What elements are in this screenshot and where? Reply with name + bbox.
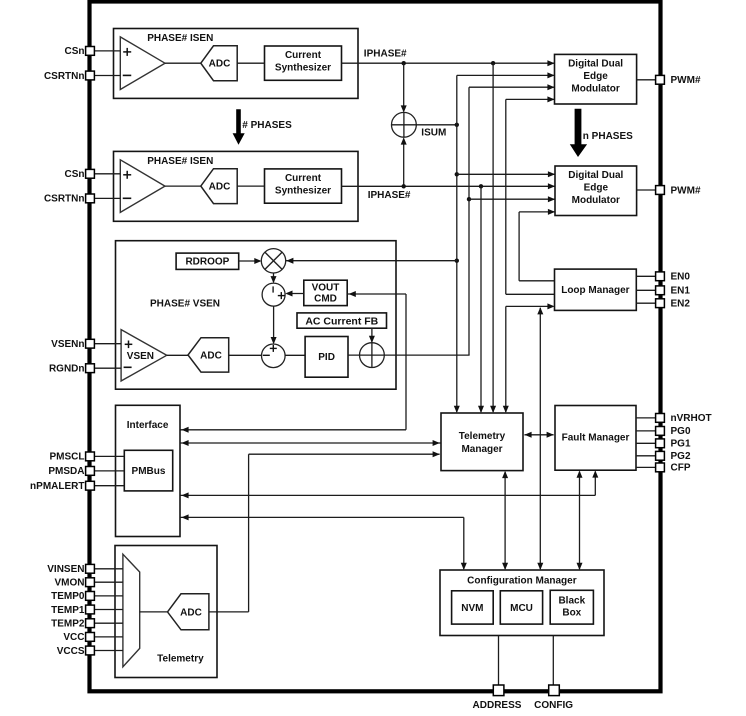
ADC 2 (current sense): [201, 169, 237, 204]
block PID: [305, 337, 348, 378]
wire RGNDn to amp: [95, 367, 122, 369]
wire Loop Manager to EN0: [636, 275, 655, 277]
wire Configuration Manager to ADDRESS pin: [498, 636, 500, 687]
multiplier droop: [261, 249, 285, 273]
svg-text:Interface: Interface: [127, 420, 169, 431]
summer 3 (AC feedforward): [360, 343, 385, 368]
n PHASES block-repeat arrow: [570, 109, 633, 157]
wire PMSDA to PMBus: [95, 470, 125, 472]
svg-text:CFP: CFP: [671, 463, 691, 474]
wire Fault Manager to nVRHOT: [636, 417, 656, 419]
svg-text:CSn: CSn: [65, 46, 85, 57]
pin ADDRESS: [473, 685, 522, 711]
wire mux to telemetry ADC: [140, 611, 168, 613]
label IPHASE# 1: [364, 48, 407, 59]
wire ISUM bus vertical: [454, 75, 460, 413]
op-amp current sense amplifier 2: [120, 160, 165, 213]
svg-text:Manager: Manager: [461, 444, 502, 455]
wire VMON to mux: [95, 581, 123, 583]
svg-text:VOUT: VOUT: [312, 282, 340, 293]
wire Loop Manager output B vertical: [518, 212, 520, 281]
block Black Box: [550, 590, 593, 624]
label PHASE# VSEN: [150, 298, 220, 309]
wire IPHASE#1 down to Telemetry Manager: [490, 63, 496, 413]
node ISUM bus junction modulator 2: [455, 172, 459, 176]
summing node ISUM: [392, 112, 417, 137]
pin PWM#: [656, 75, 701, 86]
wire VOUT CMD to summer 1: [285, 291, 304, 297]
wire VCC to mux: [95, 636, 123, 638]
wire VOUT CMD net vertical: [405, 294, 407, 430]
wire Telemetry Manager to Fault Manager: [524, 432, 553, 438]
block NVM: [452, 591, 494, 624]
block PHASE# ISEN 1 outline: [114, 29, 359, 99]
pin TEMP2: [51, 619, 94, 630]
pin VSENn: [51, 339, 94, 350]
pin PG1: [656, 439, 691, 450]
svg-text:VSEN: VSEN: [127, 351, 154, 362]
label PHASE# ISEN 2: [147, 156, 213, 167]
wire RDROOP to multiplier: [239, 258, 262, 264]
svg-text:IPHASE#: IPHASE#: [368, 190, 411, 201]
pin PMSCL: [50, 452, 95, 463]
block AC Current FB: [297, 313, 387, 328]
svg-text:VSENn: VSENn: [51, 339, 84, 350]
svg-text:CSRTNn: CSRTNn: [44, 71, 85, 82]
wire Fault Manager to CFP: [636, 466, 656, 468]
wire CSRTNn 2 to amp: [95, 197, 121, 199]
block RDROOP: [176, 253, 239, 269]
svg-text:Current: Current: [285, 173, 322, 184]
# PHASES block-repeat arrow: [233, 109, 292, 145]
node compensation bus junction modulator 2: [467, 197, 471, 201]
pin VCC: [63, 632, 94, 643]
wire VSENn to amp: [95, 343, 122, 345]
svg-text:ADC: ADC: [209, 182, 231, 193]
block Configuration Manager: [440, 570, 604, 636]
wire fault branch up to Loop Manager input: [537, 307, 543, 570]
block Telemetry outline: [115, 546, 217, 678]
svg-text:ISUM: ISUM: [421, 127, 446, 138]
svg-text:Loop Manager: Loop Manager: [561, 285, 629, 296]
pin PWM#: [656, 185, 701, 196]
wire telemetry ADC output: [209, 451, 440, 612]
wire VSEN amp to ADC: [167, 354, 188, 356]
wire Fault Manager to PG1: [636, 442, 656, 444]
wire IPHASE#2 down to Telemetry Manager: [478, 186, 484, 413]
svg-text:PMBus: PMBus: [132, 466, 166, 477]
wire multiplier to summer 1: [271, 273, 277, 283]
block PHASE# VSEN outline: [116, 241, 397, 390]
wire IPHASE#2 (Current Synthesizer 2 to Digital Dual Edge Modulator 2): [342, 183, 556, 189]
svg-text:PWM#: PWM#: [671, 185, 701, 196]
svg-text:EN1: EN1: [671, 286, 691, 297]
svg-text:AC Current FB: AC Current FB: [305, 315, 378, 327]
svg-text:PID: PID: [318, 352, 335, 363]
svg-text:RDROOP: RDROOP: [185, 257, 229, 268]
pin VMON: [55, 578, 95, 589]
label PHASE# ISEN 1: [147, 33, 213, 44]
svg-text:ADC: ADC: [180, 607, 202, 618]
svg-text:Telemetry: Telemetry: [459, 431, 506, 442]
wire IPHASE#1 down to ISUM summer: [401, 63, 407, 112]
svg-text:VCC: VCC: [63, 632, 84, 643]
svg-text:Configuration Manager: Configuration Manager: [467, 576, 577, 587]
svg-text:EN2: EN2: [671, 299, 691, 310]
pin CSRTNn: [44, 71, 94, 82]
wire compensation bus vertical: [468, 87, 470, 355]
wire VOUT CMD net horizontal upper: [347, 291, 406, 297]
wire PID output through summer 3 to compensation bus: [348, 354, 470, 356]
wire Interface to Fault Manager bottom: [180, 470, 598, 498]
pin VCCS: [57, 646, 95, 657]
svg-text:MCU: MCU: [510, 603, 533, 614]
svg-text:EN0: EN0: [671, 272, 691, 283]
svg-text:VCCS: VCCS: [57, 646, 85, 657]
wire Loop Manager input horizontal: [506, 303, 555, 309]
svg-text:PMSDA: PMSDA: [48, 466, 84, 477]
wire Configuration Manager to CONFIG pin: [552, 636, 554, 687]
ADC 1 (current sense): [201, 46, 237, 81]
pin CONFIG: [534, 685, 573, 711]
svg-text:Digital Dual: Digital Dual: [568, 59, 623, 70]
wire Fault Manager to PG0: [636, 430, 656, 432]
pin CFP: [656, 463, 691, 474]
svg-text:RGNDn: RGNDn: [49, 364, 85, 375]
label IPHASE# 2: [368, 190, 411, 201]
wire Loop Manager output A vertical: [505, 99, 507, 294]
wire Interface to Telemetry Manager: [180, 440, 441, 446]
svg-text:CONFIG: CONFIG: [534, 700, 573, 711]
wire VCCS to mux: [95, 650, 123, 652]
wire ISUM bus to modulator 2 input 1: [457, 171, 555, 177]
op-amp current sense amplifier 1: [120, 37, 165, 90]
svg-text:PHASE# VSEN: PHASE# VSEN: [150, 298, 220, 309]
pin EN2: [656, 299, 691, 310]
svg-text:PWM#: PWM#: [671, 75, 701, 86]
svg-text:ADC: ADC: [209, 59, 231, 70]
pin nPMALERT: [30, 481, 94, 492]
block Interface: [116, 405, 181, 536]
wire ISUM bus to modulator 1 input 2: [457, 72, 555, 78]
svg-text:Current: Current: [285, 50, 322, 61]
wire Telemetry Manager to Configuration Manager: [502, 471, 508, 570]
pin TEMP0: [51, 591, 94, 602]
op-amp VSEN amplifier: [121, 330, 167, 381]
node IPHASE#1 junction to ISUM: [402, 61, 406, 65]
wire modulator 2 to PWM#: [637, 189, 656, 191]
block PHASE# ISEN 2 outline: [114, 151, 359, 221]
wire ADC to summer 2: [229, 354, 262, 356]
wire Fault Manager to PG2: [636, 455, 656, 457]
wire IPHASE#1 (Current Synthesizer 1 to Digital Dual Edge Modulator 1): [342, 60, 555, 66]
pin CSn: [65, 169, 95, 180]
svg-text:VINSEN: VINSEN: [47, 564, 84, 575]
svg-text:n PHASES: n PHASES: [583, 131, 633, 142]
block Digital Dual Edge Modulator 1: [555, 54, 637, 104]
pin CSRTNn: [44, 194, 94, 205]
wire Loop Manager to EN2: [636, 302, 655, 304]
wire compensation bus to modulator 2 input 3: [469, 196, 555, 202]
pin TEMP1: [51, 605, 94, 616]
svg-text:Digital Dual: Digital Dual: [568, 170, 623, 181]
svg-text:# PHASES: # PHASES: [242, 120, 292, 131]
wire Interface to Configuration Manager: [180, 514, 467, 570]
label ISUM: [421, 127, 446, 138]
pin CSn: [65, 46, 95, 57]
block Loop Manager: [555, 269, 637, 310]
pin EN0: [656, 272, 691, 283]
wire Loop Manager output A horizontal: [506, 293, 555, 295]
svg-text:CSn: CSn: [65, 169, 85, 180]
pin VINSEN: [47, 564, 94, 575]
wire Loop Manager output B to modulator 2 input 4: [519, 209, 555, 215]
wire TEMP0 to mux: [95, 595, 123, 597]
svg-text:TEMP0: TEMP0: [51, 591, 85, 602]
wire ADC1 to Current Synthesizer 1: [237, 62, 264, 64]
svg-text:Telemetry: Telemetry: [157, 654, 204, 665]
pin PMSDA: [48, 466, 94, 477]
svg-text:Modulator: Modulator: [572, 195, 620, 206]
wire Loop Manager to EN1: [636, 289, 655, 291]
svg-text:Synthesizer: Synthesizer: [275, 63, 331, 74]
svg-text:NVM: NVM: [461, 603, 483, 614]
wire VOUT CMD net horizontal lower to Interface: [180, 427, 406, 433]
block PMBus: [124, 450, 172, 491]
summer 1 (droop minus): [262, 283, 285, 306]
wire summer 1 to summer 2: [271, 306, 277, 344]
block Telemetry Manager: [441, 413, 523, 471]
pin PG0: [656, 426, 691, 437]
svg-text:Fault Manager: Fault Manager: [562, 433, 630, 444]
wire AC Current FB to summer 3: [369, 328, 375, 368]
svg-text:ADDRESS: ADDRESS: [473, 700, 522, 711]
node ISUM bus junction droop multiplier: [455, 259, 459, 263]
svg-text:TEMP1: TEMP1: [51, 605, 85, 616]
pin PG2: [656, 451, 691, 462]
block Fault Manager: [555, 406, 636, 471]
svg-text:PG0: PG0: [671, 426, 691, 437]
block Digital Dual Edge Modulator 2: [555, 166, 637, 216]
wire IPHASE#2 up into ISUM summer: [401, 137, 407, 186]
svg-text:Black: Black: [558, 596, 585, 607]
wire modulator 1 to PWM#: [637, 79, 656, 81]
svg-text:CMD: CMD: [314, 293, 337, 304]
svg-text:PHASE# ISEN: PHASE# ISEN: [147, 33, 213, 44]
svg-text:Edge: Edge: [583, 71, 608, 82]
block MCU: [500, 591, 542, 624]
svg-text:CSRTNn: CSRTNn: [44, 194, 85, 205]
svg-text:Edge: Edge: [584, 183, 609, 194]
chip outline: [90, 2, 661, 692]
wire TEMP2 to mux: [95, 622, 123, 624]
svg-text:Modulator: Modulator: [571, 83, 619, 94]
block Current Synthesizer 1: [265, 46, 342, 80]
svg-text:VMON: VMON: [55, 578, 85, 589]
ADC telemetry: [168, 594, 209, 630]
wire CSn 2 to amp: [95, 173, 121, 175]
pin nVRHOT: [656, 413, 712, 424]
wire VINSEN to mux: [95, 568, 123, 570]
node IPHASE#2 junction to ISUM: [402, 184, 406, 188]
wire amp1 to ADC1: [165, 62, 201, 64]
svg-text:nPMALERT: nPMALERT: [30, 481, 84, 492]
node IPHASE#1 junction to telemetry bus: [491, 61, 495, 65]
wire CSRTNn 1 to amp: [95, 75, 121, 77]
svg-text:PG2: PG2: [671, 451, 691, 462]
wire Loop Manager output A to modulator 1 input 4: [506, 96, 555, 102]
svg-text:Synthesizer: Synthesizer: [275, 185, 331, 196]
wire Fault Manager to Configuration Manager: [577, 471, 583, 571]
node IPHASE#2 junction to telemetry bus: [479, 184, 483, 188]
wire Loop Manager output B horizontal: [519, 280, 554, 282]
svg-text:PHASE# ISEN: PHASE# ISEN: [147, 156, 213, 167]
svg-text:IPHASE#: IPHASE#: [364, 48, 407, 59]
block VOUT CMD: [304, 280, 347, 305]
svg-text:nVRHOT: nVRHOT: [671, 413, 712, 424]
pin EN1: [656, 286, 691, 297]
wire ISUM output to bus: [416, 124, 457, 126]
telemetry input mux: [123, 554, 140, 667]
block Current Synthesizer 2: [265, 169, 342, 203]
svg-text:ADC: ADC: [200, 351, 222, 362]
wire PMSCL to PMBus: [95, 455, 125, 457]
wire CSn 1 to amp: [95, 50, 121, 52]
wire ISUM bus to droop multiplier: [285, 258, 457, 264]
svg-text:PG1: PG1: [671, 439, 691, 450]
node ISUM output junction: [455, 123, 459, 127]
pin RGNDn: [49, 364, 94, 375]
wire TEMP1 to mux: [95, 609, 123, 611]
wire Loop Manager input net down to Telemetry Manager: [503, 306, 509, 413]
wire nPMALERT to PMBus: [95, 485, 125, 487]
svg-text:Box: Box: [562, 608, 581, 619]
wire summer 2 to PID: [285, 354, 305, 356]
svg-text:TEMP2: TEMP2: [51, 619, 85, 630]
svg-text:PMSCL: PMSCL: [50, 452, 85, 463]
ADC VSEN: [188, 338, 229, 372]
wire ADC2 to Current Synthesizer 2: [237, 185, 264, 187]
wire amp2 to ADC2: [165, 185, 201, 187]
summer 2 (reference minus sense): [262, 344, 286, 368]
wire compensation bus to modulator 1 input 3: [469, 84, 555, 90]
